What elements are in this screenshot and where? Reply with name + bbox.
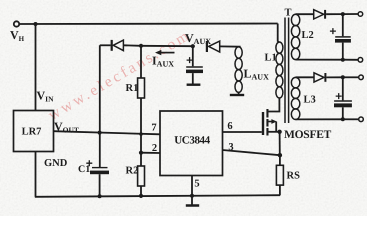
wire VOUT to pin7 [54,131,161,134]
svg-text:6: 6 [227,121,232,132]
svg-text:MOSFET: MOSFET [284,129,332,141]
wire bottom ground rail [35,195,280,197]
winding L1 [276,42,283,98]
ground bar (LAUX) [230,94,244,96]
node source junction [277,130,281,134]
node top-rail / VIN junction [34,22,38,26]
wire pin 6 (gate) [223,131,262,133]
svg-text:UC3844: UC3844 [174,135,210,147]
capacitor C3 (output L3) [342,77,344,100]
winding L3 [291,77,300,119]
svg-text:L3: L3 [304,95,316,106]
MOSFET body arrow [269,121,273,123]
ground bar (pin 5) [186,204,199,207]
svg-text:7: 7 [151,123,156,134]
terminal L2- [358,58,363,63]
node C1 / rail junction [98,194,102,198]
MOSFET source tick [269,131,280,133]
wire top rail [19,23,277,26]
node L3 bottom junction [341,117,345,121]
terminal L3- [359,117,364,122]
winding L2 [291,14,299,59]
terminal L2+ [358,12,363,17]
wire left vertical (diode leg down to C1) [99,45,101,167]
svg-text:2: 2 [152,143,157,154]
svg-text:GND: GND [44,158,68,169]
node L2 top junction [341,12,345,16]
diode D3 (output L2) [314,10,324,19]
capacitor C1 [92,167,108,169]
resistor R2 [138,166,145,186]
watermark www.elecfans.com [45,26,194,124]
wire L3 bottom [296,118,343,120]
wire L2 top [296,13,314,15]
diode D4 (output L3) [314,73,324,82]
wire pin2 [141,152,160,154]
node rail/pin7-wire crossing [139,132,143,136]
arrow IAUX [159,52,175,54]
wire VAUX link [141,45,193,47]
wire pin 3 [223,150,280,155]
svg-text:C1: C1 [78,164,90,175]
inductor LAUX [235,47,242,93]
svg-text:L2: L2 [302,30,314,41]
diode D2 (aux, pointing left) [206,41,208,52]
terminal L3+ [359,75,364,80]
wire pin 5 ground [191,176,193,206]
svg-text:RS: RS [287,171,301,182]
IC UC3844 box [160,111,223,176]
node R1 top junction [139,44,143,48]
wire L2 bottom [296,59,343,61]
wire L1 to drain [267,98,279,112]
resistor RS [276,165,283,185]
svg-text:LR7: LR7 [22,127,42,138]
regulator LR7 box [14,111,54,152]
transformer T primary L1 lead [278,24,280,43]
terminal VH [14,21,19,26]
svg-text:R2: R2 [126,166,139,177]
svg-text:L1: L1 [265,53,277,64]
diode D1 (aux, pointing left) [100,44,111,46]
node pin2 tap junction [139,151,143,155]
node R2 / rail junction [139,194,143,198]
capacitor C2 (output L2) [342,14,344,36]
ground bar (aux cap) [187,83,201,85]
svg-text:R1: R1 [126,83,139,94]
capacitor aux (at VAUX) [192,46,194,66]
resistor R1 [140,46,142,78]
svg-text:5: 5 [194,179,199,190]
MOSFET channel dashes [266,109,268,118]
wire to terminal [343,13,358,15]
node pin5 / rail crossing [190,194,194,198]
wire L3 top [296,76,314,78]
wire VIN drop [35,24,37,111]
wire source to RS [279,132,281,155]
MOSFET body-source link [275,122,277,132]
wire LR7 GND drop [35,152,37,197]
transistor MOSFET Q1 gate bar [262,112,264,135]
svg-text:T: T [284,8,291,19]
node pin3/RS junction [278,153,282,157]
transformer core [285,18,289,124]
node VAUX junction [191,44,195,48]
node VOUT/C1 junction [98,131,102,135]
node L3 top junction [341,75,345,79]
node L2 bottom junction [341,58,345,62]
